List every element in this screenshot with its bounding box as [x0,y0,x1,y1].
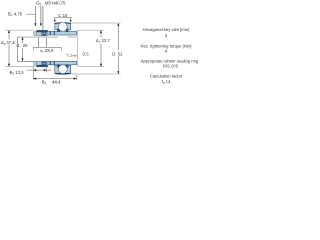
svg-text:C 15: C 15 [58,13,68,18]
svg-text:Hexagonal key size [mm]: Hexagonal key size [mm] [143,27,190,32]
svg-text:Calculation factor: Calculation factor [150,74,183,79]
label B2 13,5 [10,70,25,76]
svg-text:s1 28,9: s1 28,9 [40,48,54,54]
svg-text:d25: d25 [17,43,29,48]
svg-text:d1 33,7: d1 33,7 [96,38,110,44]
label B4 4,75 [8,12,23,18]
set screw G2 bottom [42,62,47,65]
dimension B1 [33,67,76,80]
label B1 44,4 [42,79,61,85]
background [0,0,200,87]
dimension d [22,38,24,61]
label d 25 [17,43,29,48]
cage marks bottom [57,64,68,67]
svg-text:G2: G2 [36,1,41,7]
spec text column [141,27,199,85]
label M5 [45,1,52,6]
extension line d2 bottom [5,66,34,68]
set screw G2 top [42,32,47,36]
svg-text:M5: M5 [45,1,52,6]
svg-text:f0 14: f0 14 [162,79,171,85]
label G2 [36,1,41,7]
dimension C [53,18,72,21]
leader G2 [42,6,44,30]
extension line D top [71,22,121,24]
cage marks top [57,29,68,32]
flinger seals top [50,31,54,34]
label C 15 [58,13,68,18]
label d2 37,4 [1,40,15,46]
shaft [17,37,76,61]
svg-text:D52: D52 [112,51,123,56]
dimension d1 [100,31,102,66]
leaders r12 [38,38,46,48]
label s1 28,9 [40,48,54,54]
dimension B2 [27,67,52,73]
ball bottom [58,65,67,74]
label d1 33,7 [96,38,110,44]
dimension d2 [8,31,10,66]
dimension s1 [33,47,61,50]
label H40,75 [52,1,66,6]
extension line d1 bottom [78,66,104,68]
extension line d2 top [5,29,34,31]
dimension D [117,24,119,74]
svg-text:RIS 205: RIS 205 [163,64,179,69]
extension line D bottom [71,73,121,75]
inner ring top band [38,31,77,35]
outer ring top [55,23,71,30]
outer ring bottom [55,65,71,74]
inner ring bottom band [38,61,77,65]
ball top [58,22,67,31]
eccentric collar bottom [34,61,48,67]
svg-text:B2 13,5: B2 13,5 [10,70,25,76]
flinger seals bottom [50,62,54,65]
label r1,2 min 0,6 [67,52,90,58]
svg-text:B4 4,75: B4 4,75 [8,12,23,18]
svg-text:d2 37,4: d2 37,4 [1,40,15,46]
eccentric collar top [34,30,48,35]
leader B4 [26,13,35,15]
dimension B4 [35,6,41,23]
svg-text:H40,75: H40,75 [52,1,66,6]
extension line d1 top [78,30,104,67]
label D 52 [112,51,123,56]
svg-text:B1 44,4: B1 44,4 [42,79,61,85]
